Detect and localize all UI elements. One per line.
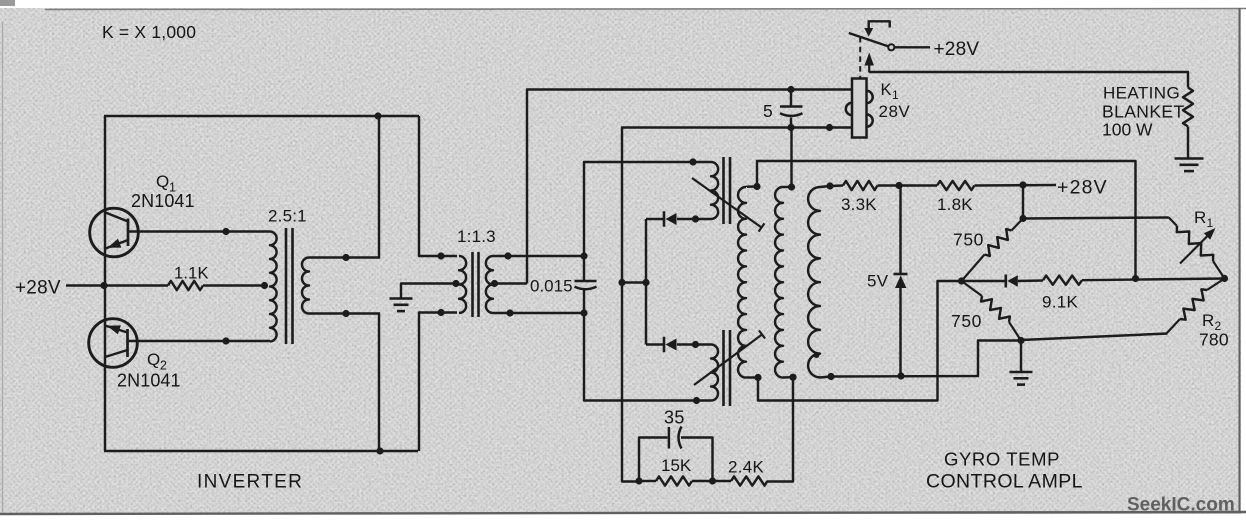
svg-text:2N1041: 2N1041 [131,191,195,211]
capacitor 5 stems [790,90,792,128]
svg-text:GYRO TEMP: GYRO TEMP [944,449,1060,470]
transistor Q2 collector diagonal [105,350,128,357]
svg-text:3.3K: 3.3K [841,195,877,214]
wire left vertical of inverter loop [104,116,106,451]
label 0.015 [530,277,573,296]
label 28V (relay) [879,102,911,121]
switch armature arrow up [864,53,874,73]
wire T2 secondary top [493,255,585,257]
wire +28V lead [66,284,105,286]
svg-text:15K: 15K [661,456,692,475]
diode CR1 [664,211,677,227]
node bridge right vertex [1221,275,1228,282]
svg-text:+28V: +28V [15,278,61,299]
transistor Q2 base bar [126,329,129,357]
svg-text:+28V: +28V [1057,177,1108,199]
polarity dot W3 [814,352,820,358]
wire diode CR2 to reactor B control winding [677,343,711,345]
node junction on top rail [374,112,381,119]
capacitor 0.015 plates [575,281,597,289]
node 35/15K right junction [709,477,716,484]
label R1 [1194,208,1214,230]
svg-text:1: 1 [892,88,899,102]
node T2 secondary top at capacitor branch [580,252,587,259]
node diode branch tee [642,279,649,286]
wire bottom rail of inverter [104,450,418,452]
label GYRO TEMP [944,449,1060,470]
svg-text:HEATING: HEATING [1103,84,1180,103]
label K1 [881,81,900,102]
wire W1 top riser and long feed to bridge [757,161,1136,279]
capacitor 5 plates [780,107,803,116]
svg-text:INVERTER: INVERTER [197,472,303,493]
label 9.1K [1042,293,1079,312]
svg-text:0.015: 0.015 [530,277,573,296]
node after diode CR1 [692,215,699,222]
wire top rail of inverter [104,115,419,117]
label +28V (switch) [934,39,980,60]
label CONTROL AMPL [926,471,1083,493]
node +28V junction [100,282,107,289]
wire 1.1K to T1 center tap [203,284,266,286]
wire 1.8K to +28V [975,184,1057,187]
node W3 bottom [827,373,834,380]
label 1.1K [174,265,209,283]
ground heating blanket [1175,159,1204,172]
node T2 secondary bottom corner [506,309,513,316]
transformer T2 primary winding [459,256,466,313]
svg-text:Q: Q [147,350,160,369]
wire to diode CR1 [646,218,664,220]
label R2 [1202,311,1222,333]
wire rail corner down to T2 primary top [419,116,457,256]
resistor 1.1K [168,281,203,290]
node T1 primary center tap [261,282,268,289]
node diode pair branch junction [618,279,625,286]
svg-text:750: 750 [953,230,984,250]
wire T1 secondary bottom [309,312,380,314]
wire diode CR3 to 9.1K [1018,279,1043,282]
node W3 top [826,182,833,189]
wire diode branch tee [622,281,647,283]
node 35/15K left junction [635,477,642,484]
svg-text:28V: 28V [879,102,911,121]
label 3.3K [841,195,877,214]
wire 3.3K to 1.8K [878,184,938,186]
node T2 secondary top corner [504,252,511,259]
svg-text:Q: Q [156,172,169,191]
label HEATING [1103,84,1180,103]
svg-text:100 W: 100 W [1102,120,1153,140]
wire heating blanket to ground [1187,127,1189,159]
node zener branch junction [895,182,902,189]
watermark SeekIC.com [1127,495,1235,516]
wire riser T1 top to rail [378,116,380,259]
label +28V (gyro) [1057,177,1108,199]
reactor B core [724,330,731,406]
node T2 secondary center tap [491,280,498,287]
transformer T1 core [286,228,293,344]
wire bridge left vertex to diode CR3 [962,280,1005,282]
transistor Q2 base lead [128,340,271,342]
output transformer winding W1 [738,187,758,378]
label 5 [763,101,773,121]
resistor 1.8K [937,181,975,190]
node W1 bottom [754,374,761,381]
wire +28V tee down to bridge top node [1022,185,1024,219]
diode CR2 [664,337,677,353]
wire W2 bottom dropper to 2.4K [767,377,793,481]
switch mechanical link [864,21,890,36]
wire W1 bottom dropper to bridge left leg [758,281,962,401]
wire W3 top to 3.3K [830,184,843,187]
resistor 750 upper [962,219,1024,282]
wire W2 top riser [790,128,792,188]
svg-text:780: 780 [1199,330,1229,350]
label 750 lower [951,311,982,331]
wire R2 bottom to bridge bottom [1021,334,1168,341]
wire W3 bottom to bridge ground leg [831,341,1021,377]
relay actuation dashed link [859,37,861,78]
svg-text:R: R [1202,311,1214,330]
label 1.8K [937,195,973,214]
switch blade [849,33,888,46]
resistor 15K [656,476,692,485]
label BLANKET [1102,102,1185,122]
svg-text:K = X 1,000: K = X 1,000 [102,22,196,42]
svg-text:BLANKET: BLANKET [1102,102,1185,122]
wire 9.1K to right vertex [1082,279,1225,281]
label 750 upper [953,230,984,250]
wire T2 secondary bottom [493,312,585,314]
node on T2 primary top wire [437,252,444,259]
label 35 [664,408,685,428]
reactor A control winding [711,162,718,219]
svg-text:5: 5 [763,101,773,121]
reactor A saturation arrow [692,178,764,232]
svg-text:+28V: +28V [934,39,980,60]
node relay feed junction above W3 [826,124,833,131]
reactor B control winding [711,345,718,401]
node feed junction on 9.1K wire [1132,275,1139,282]
node bridge left vertex [958,277,965,284]
label 5V [867,272,889,291]
svg-text:R: R [1194,208,1206,227]
wire bridge top to R1 [1023,218,1169,219]
svg-text:9.1K: 9.1K [1042,293,1079,312]
svg-text:1:1.3: 1:1.3 [457,227,496,246]
node T2 primary center tap [452,280,459,287]
node bridge top branch junction [1019,181,1026,188]
label 2.4K [728,458,765,477]
svg-text:SeekIC.com: SeekIC.com [1127,495,1235,516]
resistor 9.1K [1043,276,1082,285]
wire zener branch lower [899,288,901,376]
ground bridge [1010,341,1033,385]
wire 0.015 branch top to reactor A control winding [584,162,711,256]
output transformer winding W2 [775,187,793,378]
svg-text:5V: 5V [867,272,889,291]
diode CR3 [1006,275,1018,288]
node on T1 secondary bottom wire [342,310,349,317]
wire T2 secondary center tap [493,282,527,284]
output transformer winding W3 [808,186,831,378]
resistor 2.4K [731,476,768,485]
wire center-tap riser and top feed to relay [527,90,853,284]
node zener bottom junction [897,372,904,379]
wire diode branch vertical [645,219,647,345]
transformer T2 core [473,252,479,317]
wire to diode CR2 [646,343,664,345]
wire T2 primary center tap to ground [401,284,457,299]
potentiometer R1 [1169,218,1225,279]
resistor HEATING BLANKET 100W [1183,88,1193,127]
node on T1 secondary top wire [342,254,349,261]
wire dropper T1 bottom to rail [378,313,380,452]
svg-text:35: 35 [664,408,685,428]
label 2N1041 (Q2) [117,371,181,391]
node W1 top [753,183,760,190]
transistor Q1 collector diagonal [106,213,129,222]
svg-text:2.4K: 2.4K [728,458,765,477]
svg-text:1: 1 [1207,216,1214,230]
transistor Q1 emitter diagonal with arrow [106,239,129,249]
wire relay contact to heating blanket [869,72,1188,88]
label 1:1.3 [457,227,496,246]
node capacitor 5 top junction [787,86,794,93]
resistor 3.3K [843,181,878,190]
node T2 secondary bottom at capacitor branch [580,309,587,316]
label Q2 [147,350,167,373]
transistor Q1 circle [90,208,139,257]
capacitor 0.015 stems [583,256,585,313]
potentiometer R1 arrow [1180,228,1216,264]
node on reactor B control bottom wire [693,397,700,404]
node Q1 base wire junction [222,228,229,235]
node W2 top [788,183,795,190]
label 15K [661,456,692,475]
resistor R2 780 [1167,279,1225,334]
capacitor 35 plates [669,427,682,449]
wire lower feed to relay coil [622,128,853,482]
capacitor 35 loop [639,438,713,482]
relay K1 coil [846,79,873,138]
label K = X 1,000 [102,22,196,42]
label 2N1041 (Q1) [131,191,195,211]
label INVERTER [197,472,303,493]
transformer T2 secondary winding [486,256,493,313]
node bridge bottom vertex [1017,337,1024,344]
wire to 1.1K [104,284,168,286]
node W2 bottom [789,374,796,381]
wire 15K to 2.4K [713,480,732,482]
wire zener branch upper [899,186,901,275]
transistor Q2 circle [89,319,138,368]
svg-text:K: K [881,81,892,99]
wire 0.015 branch bottom to reactor B control winding [584,313,711,401]
reactor A core [724,157,731,224]
wire T2 primary bottom down to rail [419,313,457,452]
svg-text:2N1041: 2N1041 [117,371,181,391]
transistor Q1 base bar [127,219,130,247]
node on T2 primary bottom wire [437,309,444,316]
wire T1 secondary top [309,256,380,258]
node capacitor 5 bottom junction [787,124,794,131]
reactor B saturation arrow [694,331,765,386]
wire 15K rail [640,480,713,482]
node after diode CR2 [692,341,699,348]
resistor 750 lower [962,281,1022,341]
node on reactor A control top wire [689,158,696,165]
wire switch to +28V [894,46,930,48]
svg-text:1.8K: 1.8K [937,195,973,214]
node Q2 base wire junction [222,337,229,344]
svg-text:CONTROL AMPL: CONTROL AMPL [926,471,1083,493]
switch contact circle [888,44,894,50]
ground at T2 center tap [390,299,413,312]
label 780 [1199,330,1229,350]
transformer T1 secondary winding [302,258,309,314]
label Q1 [156,172,176,195]
label 100 W [1102,120,1153,140]
zener diode 5V [894,274,908,288]
node junction on bottom rail [376,447,383,454]
label +28V supply (left) [15,278,61,299]
transistor Q1 base lead [128,230,270,232]
transistor Q2 emitter diagonal with arrow [105,325,128,334]
svg-text:750: 750 [951,311,982,331]
transformer T1 primary winding [270,232,277,342]
wire diode CR1 to reactor A control winding [677,218,711,220]
node bridge top vertex [1019,215,1026,222]
svg-text:1.1K: 1.1K [174,265,209,283]
label 2.5:1 [268,207,307,226]
svg-text:2.5:1: 2.5:1 [268,207,307,226]
